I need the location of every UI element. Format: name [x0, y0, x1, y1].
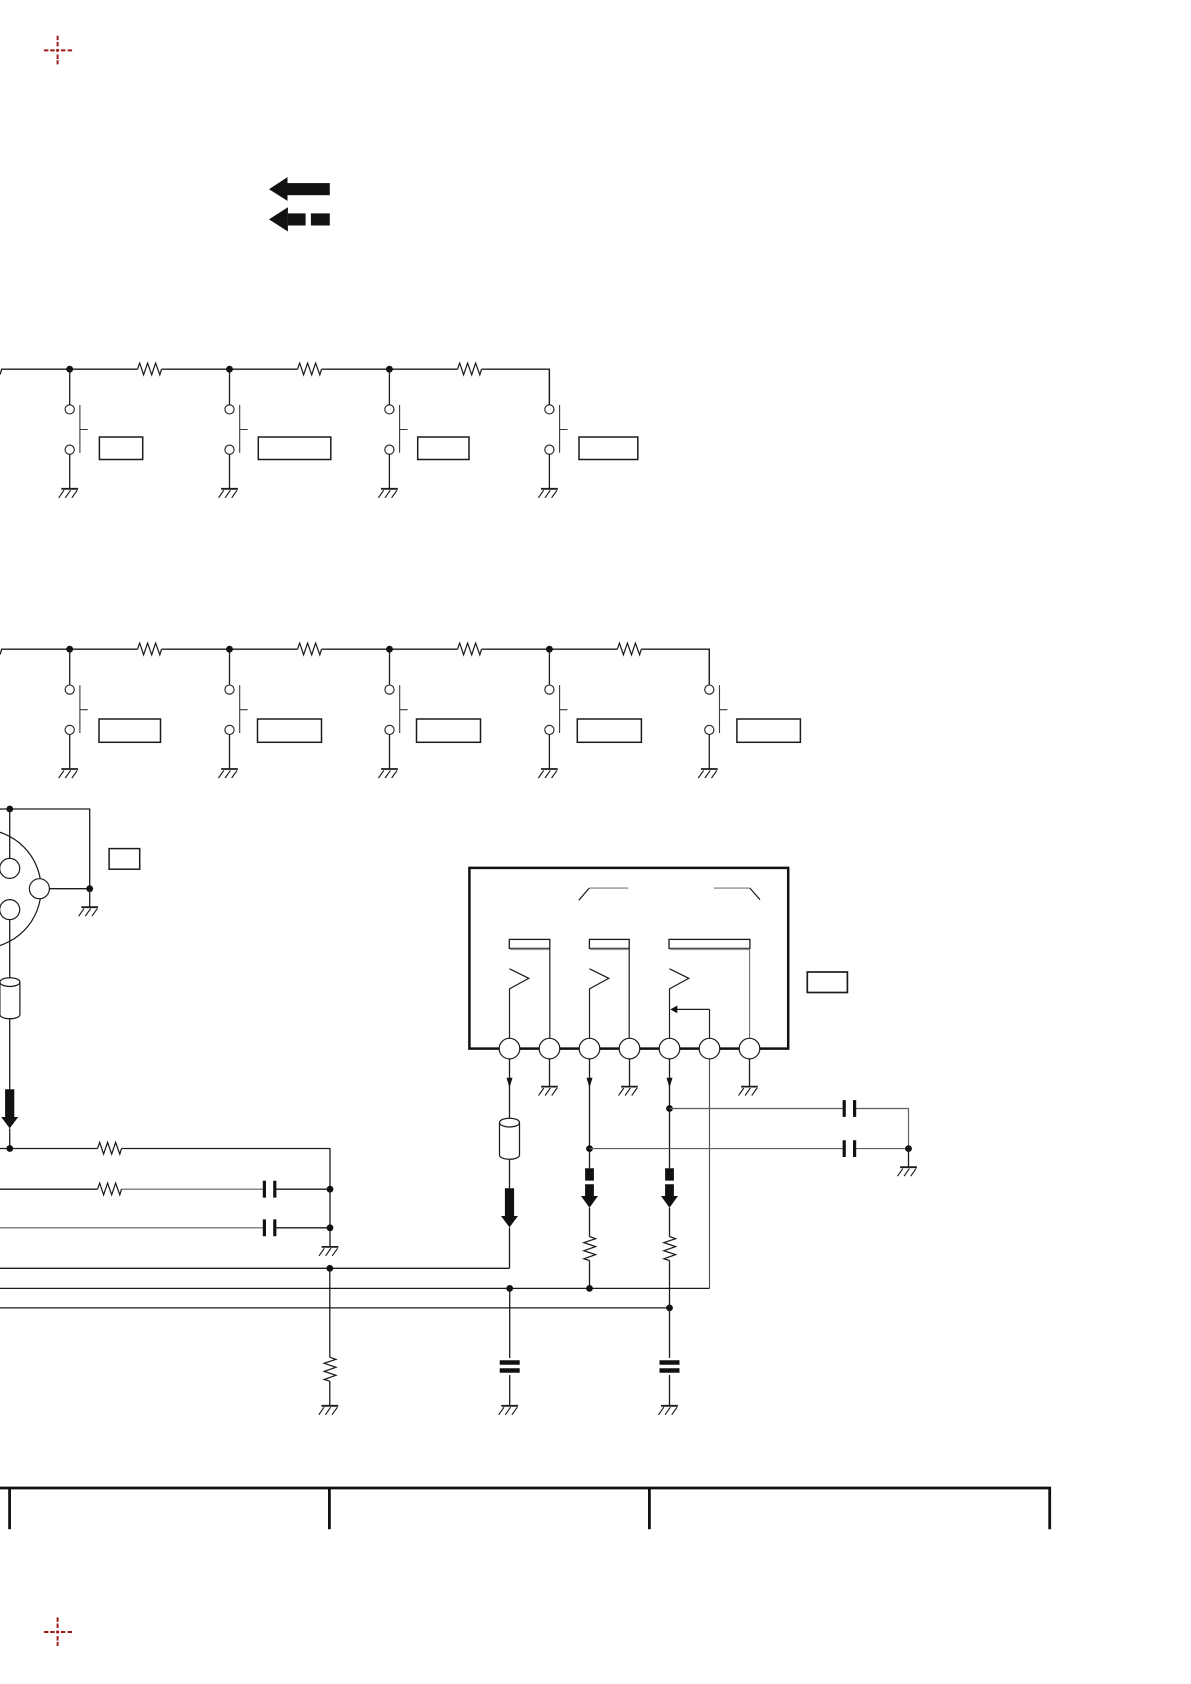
pin circle 6	[699, 1038, 720, 1059]
ground S9	[698, 769, 717, 778]
motor terminal 3	[29, 879, 49, 899]
node row2-4	[546, 646, 553, 653]
resistor R2a	[138, 643, 162, 655]
flow arrow solid	[269, 177, 330, 201]
arrowhead pin3	[587, 1078, 593, 1088]
resistor pin3	[584, 1237, 596, 1261]
wiper contact 1	[510, 969, 529, 1039]
pin circle 5	[659, 1038, 680, 1059]
wire motor top net	[0, 809, 90, 889]
wire E cap to ground	[509, 1375, 511, 1406]
wire F cap to ground	[669, 1375, 671, 1406]
node pin5 branch	[666, 1105, 673, 1112]
label box S7	[417, 719, 481, 742]
ground S1	[59, 489, 78, 498]
label box S4	[579, 437, 638, 460]
node row2-2	[226, 646, 233, 653]
wire pin5 column	[669, 1059, 671, 1168]
pin circle 1	[499, 1038, 520, 1059]
label box S9	[737, 719, 801, 742]
node bus E res	[586, 1285, 593, 1292]
arrowhead pin1	[507, 1078, 513, 1088]
node row2-1	[66, 646, 73, 653]
wire bus B right	[275, 1188, 330, 1190]
ground pin4	[619, 1087, 638, 1096]
top guide right rail	[714, 887, 750, 889]
resistor pin5	[664, 1237, 676, 1261]
wire pin1 column	[509, 1059, 511, 1188]
arrowhead pin5	[667, 1078, 673, 1088]
wire row2 bus	[0, 649, 709, 685]
wire bus F	[0, 1307, 670, 1309]
wire bus D shunt	[329, 1268, 331, 1357]
wire bus C right	[275, 1227, 330, 1229]
wiper contact 3	[670, 969, 689, 1039]
switch S5	[65, 649, 88, 769]
node row1-1	[66, 366, 73, 373]
wire motor pin1 lead	[9, 809, 11, 858]
wiper3 select arrowhead	[670, 1006, 677, 1014]
wire bus D	[0, 1267, 510, 1269]
wire row1 bus	[0, 369, 549, 405]
signal flow arrow motor lead	[1, 1089, 18, 1128]
top guide left	[579, 888, 589, 900]
top guide right	[750, 888, 760, 900]
pin circle 4	[619, 1038, 640, 1059]
ground S8	[538, 769, 557, 778]
track bar 2 return wire	[628, 949, 630, 1039]
motor M1 body circle	[0, 829, 41, 948]
wire shunt to ground	[329, 1381, 331, 1406]
node motor top	[6, 806, 13, 813]
track bar 1 return wire	[549, 949, 551, 1039]
wire pin2 stub	[549, 1059, 551, 1087]
label box S2	[258, 437, 331, 460]
ground pin2	[539, 1087, 558, 1096]
wire bus B mid	[122, 1188, 265, 1190]
ground F column	[659, 1406, 678, 1415]
node right caps	[905, 1145, 912, 1152]
node bus C	[327, 1224, 334, 1231]
IC U1 box	[469, 868, 788, 1049]
track bar 3 shade	[670, 948, 750, 950]
label box motor	[109, 849, 140, 870]
ground bus D shunt	[319, 1406, 338, 1415]
wire right caps to ground	[908, 1149, 910, 1168]
resistor R2b	[298, 643, 322, 655]
resistor bus A	[98, 1142, 122, 1154]
track bar 2	[589, 939, 629, 948]
switch S8	[545, 649, 568, 769]
wire pin5 branch to cap	[670, 1109, 909, 1149]
switch S3	[385, 369, 408, 489]
label box S5	[99, 719, 161, 742]
node motor right	[86, 885, 93, 892]
wiper3 select wire	[677, 1009, 710, 1038]
top guide left rail	[589, 887, 628, 889]
signal flow arrow pin3	[581, 1168, 598, 1208]
wire bus B left	[0, 1188, 98, 1190]
resistor bus B	[98, 1183, 122, 1195]
ground S7	[379, 769, 398, 778]
label box S3	[418, 437, 469, 460]
ground S2	[219, 489, 238, 498]
wire E cap column	[509, 1288, 511, 1358]
ground right caps	[898, 1167, 917, 1176]
registration crosshair top-left	[44, 36, 72, 65]
bracket tick 2	[328, 1488, 331, 1529]
node bus E cap	[506, 1285, 513, 1292]
wire pin5 to resistor	[669, 1208, 671, 1237]
wire pin5 to bus F and cap	[669, 1260, 671, 1358]
node row1-2	[226, 366, 233, 373]
track bar 1 shade	[510, 948, 550, 950]
capacitor E column	[500, 1363, 520, 1371]
resistor R1a	[138, 363, 162, 375]
wire pin7 stub	[749, 1059, 751, 1087]
resistor bus D shunt	[324, 1357, 336, 1381]
track bar 3	[669, 939, 750, 948]
wire into bus A	[9, 1128, 11, 1148]
wire pin3 column	[589, 1059, 591, 1168]
wire motor pin3 lead	[49, 888, 89, 890]
signal flow arrow pin1	[501, 1188, 518, 1227]
track bar 3 return wire	[749, 949, 751, 1039]
ferrite bead cylinder pin1	[500, 1118, 520, 1159]
switch S2	[225, 369, 248, 489]
flow arrow dashed	[269, 207, 330, 231]
node row1-3	[386, 366, 393, 373]
wire bus A	[0, 1149, 330, 1247]
pin circle 7	[739, 1038, 760, 1059]
ground S4	[538, 489, 557, 498]
bracket tick 3	[648, 1488, 651, 1529]
ground E column	[499, 1406, 518, 1415]
wire pin3 branch to cap	[590, 1148, 909, 1150]
label box IC right	[807, 972, 847, 993]
capacitor bus B	[264, 1181, 274, 1198]
ground S3	[378, 489, 397, 498]
wire motor bottom lead	[9, 920, 11, 1090]
wire pin4 stub	[629, 1059, 631, 1087]
wire bus E	[0, 1287, 710, 1289]
wire pin1 to bus D	[509, 1227, 511, 1268]
track bar 2 shade	[590, 948, 629, 950]
ground bus A column	[319, 1247, 338, 1256]
wire pin3 to bus E	[589, 1260, 591, 1288]
switch S1	[65, 369, 88, 489]
resistor R1b	[298, 363, 322, 375]
capacitor right top	[844, 1100, 854, 1117]
node row2-3	[386, 646, 393, 653]
node bus B	[327, 1186, 334, 1193]
wiper contact 2	[590, 969, 609, 1039]
capacitor right bottom	[844, 1140, 854, 1157]
switch S7	[385, 649, 408, 769]
wire pin3 to resistor	[589, 1208, 591, 1237]
ground pin7	[739, 1087, 758, 1096]
node pin3 branch	[586, 1145, 593, 1152]
motor terminal 1	[0, 858, 20, 878]
node bus D	[326, 1265, 333, 1272]
switch S6	[225, 649, 248, 769]
ground motor	[79, 907, 98, 916]
resistor R2c	[458, 643, 482, 655]
track bar 1	[509, 939, 550, 948]
label box S1	[99, 437, 142, 460]
ground S6	[219, 769, 238, 778]
capacitor bus C	[264, 1219, 274, 1236]
resistor R1c	[458, 363, 482, 375]
ferrite bead cylinder motor lead	[0, 978, 20, 1019]
pin circle 3	[579, 1038, 600, 1059]
switch S4	[545, 369, 568, 489]
registration crosshair bottom-left	[44, 1617, 72, 1646]
node bus A left	[6, 1145, 13, 1152]
bracket tick 1	[8, 1488, 11, 1529]
pin circle 2	[539, 1038, 560, 1059]
wire to ground	[89, 889, 91, 908]
motor terminal 2	[0, 900, 20, 920]
ground S5	[59, 769, 78, 778]
resistor R2d	[617, 643, 641, 655]
switch S9	[705, 649, 728, 769]
bracket rail	[0, 1488, 1050, 1529]
wire bus C left	[0, 1227, 264, 1229]
wire pin6 column	[709, 1059, 711, 1289]
capacitor F column	[660, 1363, 680, 1371]
label box S6	[258, 719, 322, 742]
node bus F	[666, 1305, 673, 1312]
signal flow arrow pin5	[661, 1168, 678, 1208]
label box S8	[577, 719, 641, 742]
